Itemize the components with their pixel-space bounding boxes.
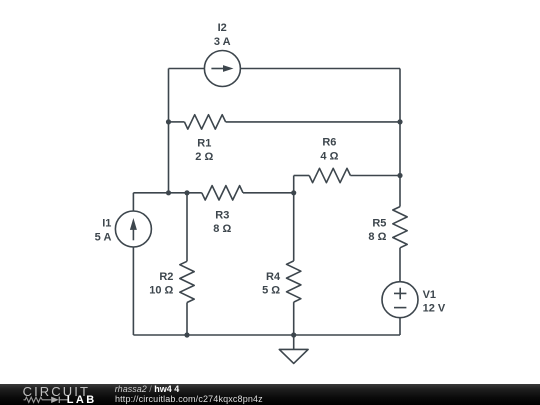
I2 arrowhead: [223, 65, 234, 72]
wire middle row to R3: [133, 192, 201, 194]
wire R2 bottom lead: [186, 303, 188, 336]
logo diode bar: [58, 397, 60, 403]
svg-text:R1: R1: [197, 137, 211, 149]
wire R1 right lead: [226, 121, 400, 123]
svg-text:I2: I2: [218, 22, 227, 34]
resistor R5: [393, 207, 407, 248]
resistor R6: [309, 168, 350, 182]
wire R6 left drop: [293, 176, 295, 193]
svg-text:4 Ω: 4 Ω: [320, 151, 338, 163]
I1 arrowhead: [130, 218, 137, 230]
svg-text:R2: R2: [159, 271, 173, 283]
wire R1 left lead: [169, 121, 185, 123]
node junction R2 top: [184, 190, 189, 195]
svg-text:12 V: 12 V: [423, 302, 446, 314]
node junction mid-left: [166, 190, 171, 195]
current source I1 circle: [115, 211, 151, 247]
V1 minus sign: [394, 307, 406, 309]
svg-text:I1: I1: [102, 218, 111, 230]
svg-text:R4: R4: [266, 271, 281, 283]
wire bottom row: [133, 334, 400, 336]
footer bar: [0, 384, 540, 405]
wire right column upper: [399, 69, 401, 207]
wire R4 bottom lead: [293, 302, 295, 335]
svg-text:R6: R6: [322, 137, 336, 149]
node junction R2 bottom: [184, 332, 189, 337]
wire top-left vertical: [168, 69, 170, 193]
wire V1 to bottom: [399, 318, 401, 335]
wire top row left of I2: [169, 68, 205, 70]
svg-text:3 A: 3 A: [214, 36, 231, 48]
current source I2 circle: [204, 51, 240, 87]
svg-text:8 Ω: 8 Ω: [213, 223, 231, 235]
I1 arrow shaft: [132, 229, 134, 240]
I2 arrow shaft: [211, 68, 224, 70]
svg-text:5 Ω: 5 Ω: [262, 284, 280, 296]
svg-text:8 Ω: 8 Ω: [368, 231, 386, 243]
node junction left R1: [166, 119, 171, 124]
wire R5 to V1: [399, 248, 401, 282]
ground symbol: [279, 349, 308, 363]
wire R3 right lead: [243, 192, 294, 194]
wire R4 top lead: [293, 193, 295, 261]
logo wire to LAB: [59, 399, 67, 401]
wire R6 left lead: [294, 175, 310, 177]
logo resistor zigzag: [24, 397, 52, 402]
wire R2 top lead: [186, 193, 188, 261]
node junction R4 top: [291, 190, 296, 195]
logo diode symbol: [51, 397, 59, 403]
ground stub: [293, 335, 295, 349]
svg-text:5 A: 5 A: [95, 231, 112, 243]
svg-text:rhassa2 / hw4 4: rhassa2 / hw4 4: [115, 384, 180, 394]
wire I1 top lead: [132, 193, 134, 211]
resistor R2: [180, 261, 194, 302]
wire top row right of I2: [240, 68, 400, 70]
voltage source V1 circle: [382, 282, 418, 318]
svg-text:2 Ω: 2 Ω: [195, 151, 213, 163]
node junction ground: [291, 332, 296, 337]
svg-text:V1: V1: [423, 289, 436, 301]
svg-text:R3: R3: [215, 209, 229, 221]
resistor R3: [202, 186, 243, 200]
resistor R4: [287, 261, 301, 302]
svg-text:R5: R5: [372, 218, 386, 230]
resistor R1: [184, 115, 225, 129]
svg-text:LAB: LAB: [67, 394, 97, 405]
wire R6 right lead: [350, 175, 400, 177]
svg-text:http://circuitlab.com/c274kqxc: http://circuitlab.com/c274kqxc8pn4z: [115, 394, 263, 404]
node junction right R6: [397, 173, 402, 178]
node junction right R1: [397, 119, 402, 124]
V1 plus sign: [394, 288, 406, 300]
svg-text:10 Ω: 10 Ω: [149, 284, 173, 296]
wire I1 bottom lead: [132, 247, 134, 335]
